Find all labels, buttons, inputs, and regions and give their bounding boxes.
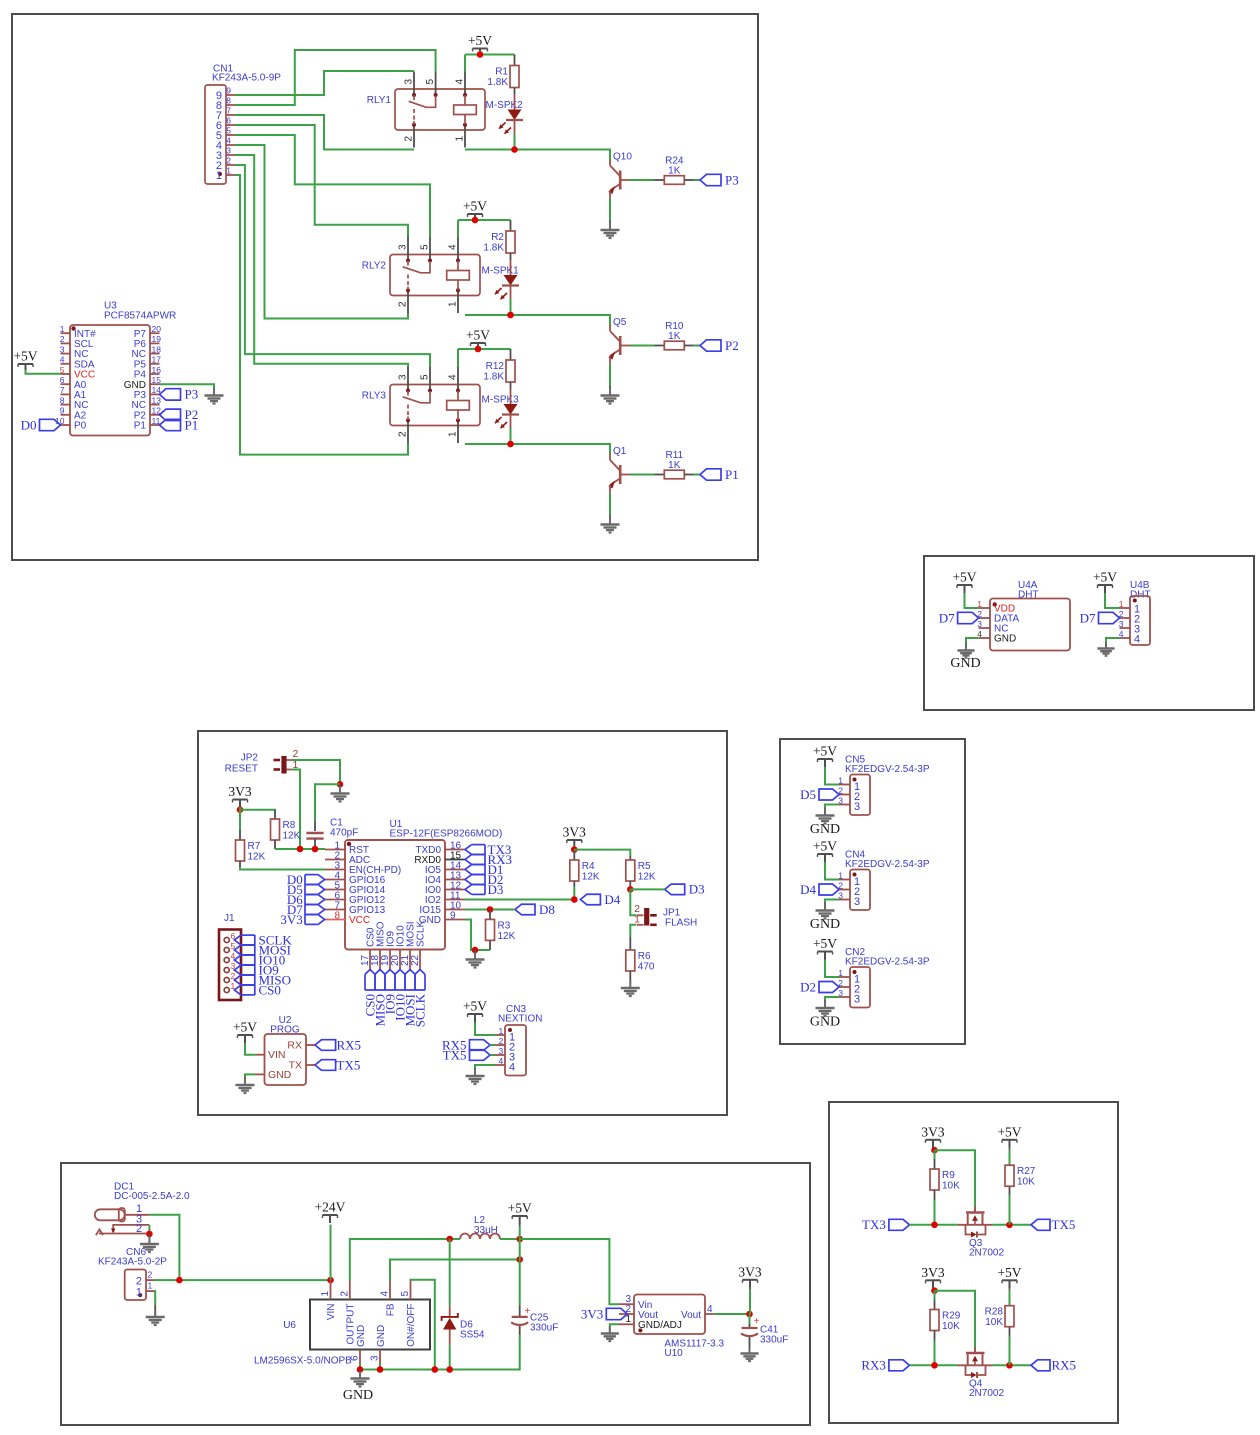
wire Q1 emitter to ground — [609, 493, 611, 515]
svg-text:12K: 12K — [638, 872, 656, 883]
svg-text:OUTPUT: OUTPUT — [346, 1304, 357, 1345]
svg-text:4: 4 — [499, 1056, 504, 1066]
U1 pin 4 GPIO16 — [325, 879, 345, 881]
svg-text:1K: 1K — [668, 460, 681, 471]
U3 pin 6 A0 — [61, 383, 71, 385]
transistor Q3 2N7002 (N-MOSFET) — [958, 1224, 992, 1226]
wire +5V to CN5 pin1 — [825, 767, 839, 785]
wire ON#/OFF to gnd bus — [411, 1280, 435, 1370]
ground Q1 emitter — [609, 518, 611, 525]
U3 pin 18 NC — [150, 353, 160, 355]
net port MISO (bottom) — [374, 974, 376, 990]
U2 pin GND — [256, 1073, 265, 1075]
svg-text:+24V: +24V — [315, 1200, 346, 1215]
ground U1 pin9 — [474, 953, 476, 960]
wire U1 IO15 to R3/D8 — [465, 909, 508, 911]
junction — [377, 1366, 384, 1373]
net port D2 at CN2 pin2 — [819, 982, 839, 993]
junction — [475, 346, 482, 353]
DC1 pin 3 contact — [113, 1225, 149, 1232]
net port TX3 — [889, 1219, 910, 1230]
wire +24V to U6 VIN — [330, 1225, 332, 1281]
svg-text:D3: D3 — [488, 882, 504, 897]
svg-text:VCC: VCC — [349, 915, 370, 926]
svg-text:3V3: 3V3 — [921, 1265, 944, 1280]
ground CN3 — [474, 1069, 476, 1076]
relay RLY1 contact lever — [413, 95, 415, 100]
svg-text:1.8K: 1.8K — [487, 77, 508, 88]
wire 3V3 to gate — [935, 1150, 976, 1207]
sheet border: relay board — [12, 14, 758, 560]
ground Q5 emitter — [609, 389, 611, 396]
U1 pin 15 RXD0 — [445, 859, 465, 861]
svg-text:SS54: SS54 — [460, 1330, 485, 1341]
net port D0 — [305, 874, 318, 876]
svg-text:1: 1 — [226, 166, 231, 176]
U3 pin 16 P4 — [150, 373, 160, 375]
svg-text:TX5: TX5 — [443, 1047, 467, 1062]
svg-text:16: 16 — [152, 365, 162, 375]
U1 pin 13 IO4 — [445, 879, 465, 881]
svg-text:5: 5 — [420, 374, 431, 380]
wire CN2 pin3 to ground — [825, 997, 839, 1000]
svg-text:U6: U6 — [283, 1320, 296, 1331]
svg-text:3: 3 — [370, 1355, 381, 1361]
wire U6 GND pins to bus — [359, 1363, 361, 1370]
svg-text:P1: P1 — [185, 417, 199, 432]
svg-text:10K: 10K — [985, 1317, 1003, 1328]
net port RX5 — [1031, 1360, 1050, 1371]
U4A pin 1 VDD — [979, 607, 990, 609]
svg-text:2: 2 — [499, 1036, 504, 1046]
svg-text:+5V: +5V — [466, 328, 490, 343]
sheet border: ESP8266 controller — [198, 731, 727, 1115]
svg-text:22: 22 — [410, 954, 421, 966]
CN1 pin 6 — [226, 124, 235, 126]
U1 pin 8 VCC — [325, 919, 345, 921]
svg-text:FB: FB — [386, 1303, 397, 1316]
svg-text:3: 3 — [398, 374, 409, 380]
relay RLY1 coil — [464, 95, 466, 105]
U1 pin 2 ADC — [325, 859, 345, 861]
svg-text:ON#/OFF: ON#/OFF — [406, 1304, 417, 1347]
svg-text:1K: 1K — [668, 166, 681, 177]
svg-text:GND: GND — [343, 1388, 373, 1403]
net port P1 — [700, 469, 721, 480]
wire FB line — [390, 1260, 520, 1281]
wire +5V node down to C25 — [519, 1239, 521, 1305]
wire base to R10 — [630, 345, 655, 347]
svg-text:+5V: +5V — [997, 1265, 1021, 1280]
U3 pin 8 NC — [61, 404, 71, 406]
svg-text:4: 4 — [707, 1304, 713, 1315]
CN2 pin 2 — [839, 986, 850, 988]
net port D6 — [305, 894, 318, 896]
svg-text:VIN: VIN — [268, 1049, 286, 1061]
wire relay pin1/LED junction to Q10 collector — [465, 150, 610, 161]
net ports D0 D5 D6 D7 3V3 at U1 left — [304, 875, 306, 925]
svg-text:TX3: TX3 — [862, 1217, 886, 1232]
junction — [472, 217, 479, 224]
J1 pin 5 — [224, 947, 229, 952]
ground CN4 — [824, 904, 826, 911]
svg-text:+5V: +5V — [508, 1201, 532, 1216]
svg-text:D2: D2 — [800, 979, 816, 994]
svg-text:GND: GND — [810, 917, 840, 932]
ground U3 pin15 — [213, 389, 215, 396]
J1 pin 2 — [224, 977, 229, 982]
wire DC1 pins 2+3 to ground — [148, 1225, 150, 1234]
CN5 pin 1 — [839, 784, 850, 786]
net port D7 at U4A DATA — [958, 612, 979, 623]
resistor R28 10K — [1005, 1306, 1014, 1327]
junction — [146, 1231, 153, 1238]
U1 pin 11 IO2 — [445, 899, 465, 901]
net port 3V3 at U10 Vout — [606, 1308, 627, 1319]
sheet border: level shifters — [829, 1102, 1118, 1423]
wire RX3 to Q4 source — [910, 1364, 959, 1366]
svg-text:RESET: RESET — [225, 764, 258, 775]
svg-text:3: 3 — [226, 146, 231, 156]
wire U4B pin4 to ground — [1106, 638, 1120, 642]
svg-text:9: 9 — [60, 406, 65, 416]
svg-text:JP2: JP2 — [241, 753, 259, 764]
net port RX3 — [889, 1360, 910, 1371]
capacitor C41 330uF — [749, 1314, 751, 1324]
relay RLY2 coil — [457, 261, 459, 271]
svg-text:GND: GND — [810, 1015, 840, 1030]
CN2 pin 1 — [839, 976, 850, 978]
svg-text:+5V: +5V — [952, 570, 976, 585]
CN1 pin 9 — [226, 94, 235, 96]
svg-text:RLY1: RLY1 — [367, 95, 392, 106]
U3 pin 11 P1 — [150, 424, 160, 426]
svg-text:P1: P1 — [725, 467, 739, 482]
svg-text:3: 3 — [854, 801, 860, 813]
U4A pin 2 DATA — [979, 617, 990, 619]
U3 pin 15 GND — [150, 383, 160, 385]
resistor R2 1.8K — [510, 220, 512, 231]
wire R7 to EN pin — [240, 867, 325, 870]
svg-text:P3: P3 — [185, 387, 199, 402]
svg-text:D0: D0 — [21, 417, 37, 432]
J1 pin 4 — [224, 957, 229, 962]
svg-text:2: 2 — [148, 1270, 153, 1280]
svg-text:D7: D7 — [1080, 610, 1096, 625]
wire CN6 pin2 to +24V node — [154, 1279, 331, 1281]
svg-text:3V3: 3V3 — [563, 825, 586, 840]
svg-text:DHT: DHT — [1130, 590, 1151, 601]
resistor R29 10K — [930, 1310, 939, 1331]
svg-text:R7: R7 — [248, 841, 261, 852]
junction — [516, 1256, 523, 1263]
svg-text:4: 4 — [60, 355, 65, 365]
CN1 pin 3 — [226, 154, 235, 156]
DC1 pin 1 — [125, 1214, 150, 1216]
wire U1 GND pin9 to ground — [465, 920, 475, 951]
junction — [337, 781, 344, 788]
ground DC1 — [148, 1237, 150, 1244]
svg-text:3V3: 3V3 — [228, 784, 251, 799]
wire CN1 pin2 to RLY3 pin5 — [235, 165, 430, 367]
svg-text:7: 7 — [60, 385, 65, 395]
CN3 pin 4 — [495, 1064, 505, 1066]
net port MOSI — [241, 944, 255, 946]
svg-text:1: 1 — [320, 1291, 331, 1297]
wire flag RX5 to pin2 — [490, 1044, 495, 1046]
U1 pin 19 IO9 — [389, 950, 391, 970]
svg-text:GND: GND — [376, 1325, 387, 1347]
net port D7 — [305, 904, 318, 906]
svg-text:2: 2 — [398, 431, 409, 437]
net port D4 — [580, 894, 600, 905]
svg-text:3: 3 — [854, 994, 860, 1006]
U1 pin 16 TXD0 — [445, 849, 465, 851]
wire U6 OUTPUT to L2 — [350, 1239, 450, 1281]
svg-text:P0: P0 — [74, 421, 87, 432]
wire +5V to U4B pin1 — [1105, 593, 1120, 608]
ground R6 — [629, 981, 631, 988]
junction — [1006, 1362, 1013, 1369]
svg-text:D3: D3 — [689, 882, 705, 897]
resistor R10 1K — [655, 345, 665, 347]
svg-text:+5V: +5V — [1093, 570, 1117, 585]
svg-text:+5V: +5V — [13, 349, 37, 364]
wire CN1 pin8 to RLY1 pin5 — [235, 50, 436, 105]
svg-text:SCLK: SCLK — [412, 993, 427, 1027]
CN5 pin 2 — [839, 794, 850, 796]
diode D6 SS54 (Schottky) — [449, 1239, 451, 1306]
wire 3V3 to R9 — [934, 1150, 936, 1159]
U6 pin 4 FB — [389, 1281, 391, 1300]
junction — [357, 1366, 364, 1373]
resistor R9 10K — [930, 1169, 939, 1190]
svg-text:9: 9 — [450, 910, 456, 921]
transistor Q4 2N7002 (N-MOSFET) — [958, 1364, 992, 1366]
svg-text:SCLK: SCLK — [416, 921, 427, 947]
U3 pin 4 SDA — [61, 363, 71, 365]
relay RLY3 — [390, 385, 480, 426]
svg-text:+5V: +5V — [233, 1020, 257, 1035]
CN5 pin 3 — [839, 804, 850, 806]
net port D5 at CN5 pin2 — [819, 789, 839, 800]
U3 pin 12 P2 — [150, 414, 160, 416]
U3 pin 10 P0 — [61, 424, 71, 426]
junction — [571, 896, 578, 903]
net port MISO — [241, 974, 255, 976]
svg-text:3: 3 — [60, 344, 65, 354]
relay RLY3 contact lever — [407, 391, 409, 396]
wire CN1 pin5 to RLY2 pin5 — [235, 135, 430, 237]
wire +5V to CN2 pin1 — [825, 960, 839, 978]
svg-text:10K: 10K — [942, 1181, 960, 1192]
svg-text:4: 4 — [448, 374, 459, 380]
net port D1 — [472, 864, 485, 866]
junction — [237, 806, 244, 813]
junction — [507, 441, 514, 448]
svg-text:J1: J1 — [224, 913, 235, 924]
wire Q4 drain to RX5 — [992, 1364, 1031, 1366]
capacitor C25 330uF — [519, 1305, 521, 1316]
wire junction to C1 top — [315, 784, 340, 820]
svg-text:4: 4 — [509, 1062, 515, 1074]
net port P1 at U3 pin11 — [160, 419, 181, 430]
CN1 pin 5 — [226, 134, 235, 136]
svg-text:1: 1 — [455, 136, 466, 142]
resistor R7 12K — [236, 840, 245, 861]
svg-text:D8: D8 — [539, 902, 555, 917]
ground U10 — [609, 1327, 611, 1334]
junction — [931, 1287, 938, 1294]
junction — [487, 906, 494, 913]
svg-text:3: 3 — [838, 890, 843, 900]
svg-text:3V3: 3V3 — [921, 1124, 944, 1139]
svg-text:470: 470 — [638, 962, 655, 973]
svg-text:4: 4 — [455, 79, 466, 85]
svg-text:3V3: 3V3 — [280, 912, 302, 927]
wire D6 anode to gnd bus — [449, 1345, 451, 1370]
net port D3 — [472, 884, 485, 886]
U4B pin 3 — [1120, 627, 1131, 629]
svg-text:8: 8 — [60, 395, 65, 405]
wire R27 to drain — [1009, 1195, 1011, 1225]
svg-text:R12: R12 — [486, 361, 505, 372]
svg-text:R8: R8 — [283, 820, 296, 831]
svg-text:4: 4 — [380, 1291, 391, 1297]
ground C41 — [749, 1347, 751, 1354]
net port IO10 (bottom) — [394, 974, 396, 990]
junction — [477, 51, 484, 58]
net port 3V3 — [305, 914, 318, 916]
CN6 pin 2 — [146, 1279, 154, 1281]
svg-text:Q1: Q1 — [613, 446, 627, 457]
junction — [571, 846, 578, 853]
svg-text:4: 4 — [226, 136, 231, 146]
wire RST net — [275, 848, 325, 850]
U3 pin 2 SCL — [61, 342, 71, 344]
svg-text:3: 3 — [838, 988, 843, 998]
U6 pin 2 OUTPUT — [349, 1281, 351, 1300]
CN1 pin 2 — [226, 164, 235, 166]
svg-text:GND: GND — [994, 634, 1016, 645]
wire +5V rail to R1 — [465, 54, 515, 56]
svg-text:2N7002: 2N7002 — [969, 1247, 1004, 1258]
net port TX5 at CN3 pin3 — [470, 1050, 491, 1061]
wire CN1 pin1 to RLY3 pin2 — [235, 175, 408, 455]
sheet border: sensor connectors — [780, 739, 965, 1044]
junction — [432, 1366, 439, 1373]
sheet border: power supply — [61, 1163, 810, 1425]
svg-text:5: 5 — [60, 365, 65, 375]
resistor R3 12K — [489, 910, 491, 920]
U1 pin 10 IO15 — [445, 909, 465, 911]
svg-text:2: 2 — [404, 136, 415, 142]
svg-text:NEXTION: NEXTION — [498, 1014, 542, 1025]
CN4 pin 2 — [839, 889, 850, 891]
svg-text:10K: 10K — [942, 1321, 960, 1332]
U4B pin 4 — [1120, 637, 1131, 639]
wire 3V3 to gate — [935, 1291, 976, 1348]
wire Q3 drain to TX5 — [992, 1224, 1031, 1226]
net port IO10 — [241, 954, 255, 956]
wire CN1 pin6 to RLY2 pin3 — [235, 125, 408, 237]
wire +5V to U3 pin5 — [26, 370, 61, 374]
DC1 pin 2 contact — [96, 1230, 103, 1236]
U1 pin 14 IO5 — [445, 869, 465, 871]
svg-text:1: 1 — [448, 301, 459, 307]
svg-text:13: 13 — [152, 395, 162, 405]
svg-text:R3: R3 — [498, 920, 511, 931]
wire R28 to drain — [1009, 1336, 1011, 1366]
svg-text:D4: D4 — [604, 892, 620, 907]
svg-text:+5V: +5V — [813, 936, 837, 951]
svg-text:20: 20 — [152, 324, 162, 334]
svg-text:5: 5 — [420, 244, 431, 250]
net port SCLK (bottom) — [414, 974, 416, 990]
svg-text:12K: 12K — [498, 931, 516, 942]
net port RX3 — [472, 854, 485, 856]
svg-text:GND: GND — [356, 1325, 367, 1347]
svg-text:R9: R9 — [942, 1170, 955, 1181]
svg-text:R28: R28 — [985, 1307, 1004, 1318]
net port CS0 — [241, 984, 255, 986]
resistor R4 12K — [570, 860, 579, 881]
svg-text:Q10: Q10 — [613, 152, 632, 163]
wire CN1 pin3 to RLY3 pin3 — [235, 155, 408, 367]
svg-text:1: 1 — [136, 1286, 142, 1298]
svg-text:2N7002: 2N7002 — [969, 1388, 1004, 1399]
svg-text:8: 8 — [334, 910, 340, 921]
wire U3 GND pin15 to ground — [160, 384, 215, 388]
svg-text:Vout: Vout — [681, 1310, 701, 1321]
net port P3 at U3 pin14 — [160, 389, 181, 400]
svg-text:DC-005-2.5A-2.0: DC-005-2.5A-2.0 — [114, 1191, 190, 1202]
net ports CS0 MISO IO9 IO10 MOSI SCLK below U1 — [365, 989, 425, 991]
U10 pin 1 GND/ADJ — [619, 1323, 634, 1325]
CN4 pin 3 — [839, 899, 850, 901]
svg-text:Q5: Q5 — [613, 317, 627, 328]
svg-text:VIN: VIN — [326, 1304, 337, 1321]
junction — [297, 846, 304, 853]
sheet border: DHT sensors — [924, 556, 1254, 710]
U3 pin 5 VCC — [61, 373, 71, 375]
wire Q10 emitter to ground — [609, 199, 611, 221]
junction — [627, 886, 634, 893]
wire CN1 pin7 to RLY1 pin2 — [235, 115, 414, 150]
wire 3V3 to R4 — [573, 850, 575, 851]
U1 pin 5 GPIO14 — [325, 889, 345, 891]
svg-text:TX: TX — [289, 1060, 302, 1072]
svg-text:R27: R27 — [1017, 1166, 1036, 1177]
wire U2 GND to ground — [245, 1074, 256, 1077]
U3 pin 3 NC — [61, 353, 71, 355]
resistor R1 1.8K — [514, 55, 516, 66]
svg-text:+5V: +5V — [813, 839, 837, 854]
svg-text:1: 1 — [499, 1026, 504, 1036]
svg-text:7: 7 — [226, 106, 231, 116]
U3 pin 7 A1 — [61, 393, 71, 395]
U2 pin VIN — [256, 1054, 265, 1056]
U6 pin 5 ON#/OFF — [410, 1281, 412, 1300]
svg-text:RLY3: RLY3 — [362, 391, 387, 402]
svg-text:3: 3 — [977, 619, 982, 629]
U1 pin 9 GND — [445, 919, 465, 921]
svg-text:M-SPK1: M-SPK1 — [482, 266, 520, 277]
J1 pin 1 — [224, 987, 229, 992]
svg-text:R5: R5 — [638, 861, 651, 872]
U10 pin 2 Vout — [619, 1313, 634, 1315]
svg-text:GND: GND — [810, 822, 840, 837]
